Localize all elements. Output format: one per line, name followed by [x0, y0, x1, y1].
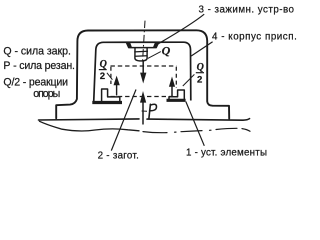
- reaction arrow left Q/2: [116, 83, 118, 96]
- svg-text:2: 2: [100, 71, 105, 82]
- left support base: [92, 101, 122, 104]
- leader 3: [158, 14, 204, 44]
- workpiece dashed outline right edge: [175, 67, 177, 88]
- workpiece dashed outline (2) top: [111, 65, 177, 67]
- svg-text:3 - зажимн. устр-во: 3 - зажимн. устр-во: [199, 5, 295, 16]
- workpiece dashed outline left edge: [110, 67, 112, 84]
- table surface line: [39, 119, 250, 121]
- right support base: [167, 99, 186, 102]
- clamp stem hatch ticks: [134, 51, 148, 56]
- leader 1: [186, 102, 205, 146]
- left support (1): [102, 89, 120, 102]
- leader Q/2 right: [183, 74, 195, 86]
- svg-text:1 - уст. элементы: 1 - уст. элементы: [186, 147, 267, 158]
- clamp bar (3): [126, 42, 158, 47]
- force Q arrow down: [142, 61, 144, 74]
- svg-text:Q: Q: [162, 44, 171, 58]
- right support (1): [169, 90, 184, 100]
- clamp stem: [135, 48, 147, 61]
- workpiece dashed outline bottom: [111, 96, 177, 98]
- svg-text:Q: Q: [100, 59, 107, 70]
- svg-text:Q: Q: [197, 62, 204, 73]
- label P (handwritten): [149, 104, 151, 118]
- leader 2: [111, 90, 136, 151]
- leader Q: [148, 52, 161, 59]
- svg-text:опоры: опоры: [33, 88, 60, 100]
- break line dash-dot tail: [143, 128, 250, 132]
- svg-text:Q - сила закр.: Q - сила закр.: [3, 46, 71, 58]
- fixture body outer outline U4: [56, 30, 229, 118]
- leader 4: [191, 42, 212, 56]
- break line wavy: [40, 121, 140, 131]
- centerline (dash-dot): [143, 21, 145, 61]
- reaction arrow right Q/2: [171, 84, 173, 96]
- svg-text:Р - сила резан.: Р - сила резан.: [3, 60, 75, 72]
- leader Q/2 left: [107, 73, 113, 80]
- svg-text:4 - корпус присп.: 4 - корпус присп.: [212, 31, 297, 42]
- clamp bar end wedges: [127, 43, 132, 48]
- svg-text:2: 2: [197, 75, 202, 86]
- inner cavity outline: [94, 42, 191, 102]
- svg-text:2 - загот.: 2 - загот.: [98, 150, 139, 161]
- cutting force P arrow: [142, 101, 144, 125]
- leader P tick: [142, 110, 147, 112]
